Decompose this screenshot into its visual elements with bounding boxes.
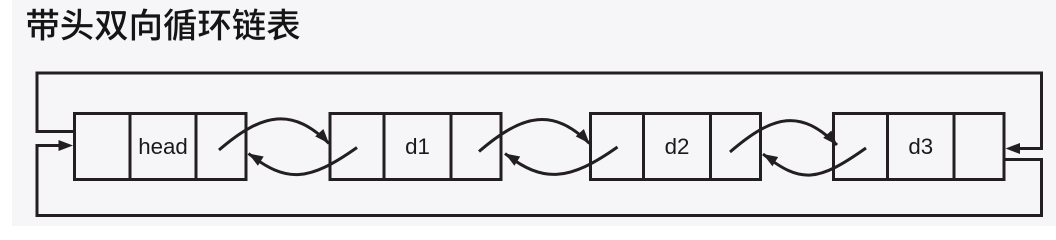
svg-text:d1: d1	[405, 134, 430, 159]
svg-text:d2: d2	[665, 134, 690, 159]
svg-text:d3: d3	[908, 134, 933, 159]
svg-text:head: head	[138, 134, 188, 159]
